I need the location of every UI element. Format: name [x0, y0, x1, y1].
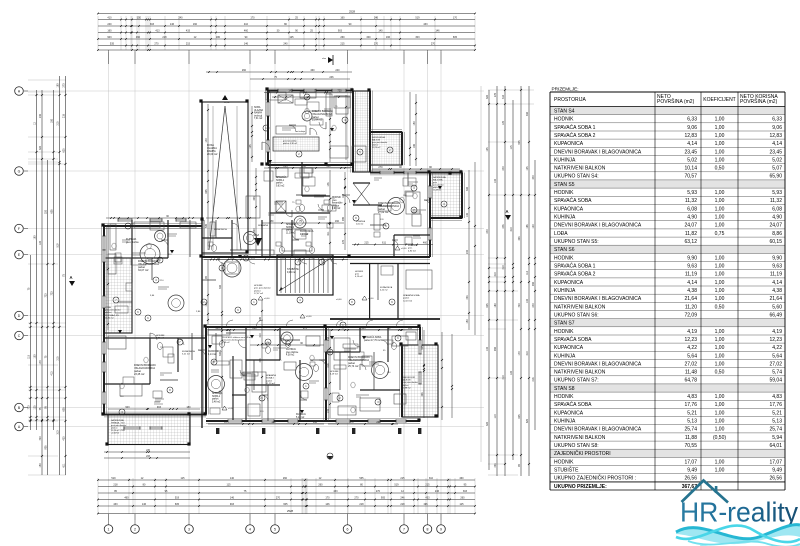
svg-text:SPAVAĆA SOBA: SPAVAĆA SOBA: [554, 336, 592, 343]
svg-text:115: 115: [227, 483, 232, 486]
svg-text:11,19: 11,19: [770, 272, 782, 278]
svg-text:23,45: 23,45: [684, 149, 697, 155]
svg-text:170: 170: [39, 360, 42, 365]
svg-text:180: 180: [51, 118, 54, 123]
svg-text:519: 519: [57, 243, 60, 248]
svg-text:pločice 4,38 m2: pločice 4,38 m2: [283, 143, 298, 145]
svg-text:6,33: 6,33: [687, 117, 697, 123]
svg-text:150: 150: [39, 463, 42, 468]
svg-text:240: 240: [466, 249, 469, 254]
svg-text:310: 310: [259, 333, 262, 338]
svg-text:72,09: 72,09: [684, 312, 697, 318]
svg-text:720: 720: [337, 89, 342, 92]
svg-text:270: 270: [494, 92, 497, 97]
svg-text:25,74: 25,74: [769, 427, 782, 433]
svg-text:11,19: 11,19: [685, 272, 697, 278]
svg-text:218: 218: [113, 483, 118, 486]
svg-text:460: 460: [136, 36, 141, 39]
svg-text:460: 460: [423, 241, 428, 244]
svg-text:270: 270: [354, 496, 359, 499]
svg-text:21,64: 21,64: [769, 296, 782, 302]
svg-text:905: 905: [45, 445, 48, 450]
svg-text:215: 215: [340, 42, 345, 45]
svg-text:parket 17,76 m2: parket 17,76 m2: [364, 339, 381, 342]
svg-text:0,50: 0,50: [715, 304, 725, 310]
svg-text:160: 160: [271, 421, 276, 424]
svg-text:gres porculanske: gres porculanske: [402, 381, 419, 384]
svg-text:215: 215: [186, 42, 191, 45]
svg-text:146: 146: [244, 42, 249, 45]
svg-text:433: 433: [425, 496, 430, 499]
svg-text:STAN S5: STAN S5: [554, 182, 575, 188]
svg-text:903: 903: [532, 281, 535, 286]
svg-text:215: 215: [57, 356, 60, 361]
svg-text:611: 611: [382, 241, 387, 244]
svg-text:izolov.gl: izolov.gl: [254, 115, 263, 117]
svg-text:120: 120: [532, 224, 535, 229]
svg-text:5,07: 5,07: [772, 166, 782, 172]
S5 rooms south of mid-right unit: [350, 263, 430, 265]
svg-text:1,00: 1,00: [715, 157, 725, 163]
svg-text:605: 605: [453, 36, 458, 39]
svg-text:21,64: 21,64: [684, 296, 697, 302]
svg-text:1,00: 1,00: [715, 288, 725, 294]
svg-text:1,00: 1,00: [715, 255, 725, 261]
hatched terraces/balconies: [353, 91, 370, 172]
svg-text:26,56: 26,56: [769, 476, 782, 482]
svg-text:433: 433: [466, 295, 469, 300]
svg-text:SPAVAĆA SOBA: SPAVAĆA SOBA: [403, 294, 420, 297]
svg-text:4,14 m2: 4,14 m2: [300, 234, 309, 236]
svg-text:303: 303: [466, 186, 469, 191]
svg-text:4,38: 4,38: [687, 288, 697, 294]
svg-text:1,00: 1,00: [715, 272, 725, 278]
svg-text:12,23 m2: 12,23 m2: [403, 300, 413, 302]
svg-text:SPAVAĆA SOBA 1: SPAVAĆA SOBA 1: [554, 263, 596, 270]
svg-text:460: 460: [459, 477, 464, 480]
svg-text:6,33: 6,33: [772, 117, 782, 123]
grid bubbles 1-9: [108, 514, 110, 525]
svg-text:KUHINJA: KUHINJA: [554, 215, 576, 221]
svg-text:535: 535: [408, 327, 413, 330]
svg-text:4,14: 4,14: [687, 280, 697, 286]
svg-text:F: F: [18, 227, 20, 231]
svg-text:5,13: 5,13: [772, 419, 782, 425]
svg-text:DNEVNI BORAVAK I BLAGOVAONICA: DNEVNI BORAVAK I BLAGOVAONICA: [554, 223, 642, 229]
svg-text:SPAVAĆA SOBA 1: SPAVAĆA SOBA 1: [554, 124, 596, 131]
svg-text:KUHINJA: KUHINJA: [296, 413, 306, 416]
svg-text:HODNIK: HODNIK: [554, 329, 574, 335]
svg-text:218: 218: [400, 503, 405, 506]
svg-text:611: 611: [63, 463, 66, 467]
svg-text:20,00 m2: 20,00 m2: [207, 153, 218, 156]
svg-text:303: 303: [421, 392, 424, 397]
svg-text:125: 125: [486, 147, 489, 152]
svg-text:340: 340: [532, 175, 535, 180]
svg-text:65,90: 65,90: [769, 174, 782, 180]
svg-text:DNEVNI BORAVAK I BLAGOVAONICA: DNEVNI BORAVAK I BLAGOVAONICA: [554, 361, 642, 367]
svg-text:26,56: 26,56: [684, 476, 697, 482]
svg-text:21,64 m2: 21,64 m2: [312, 119, 323, 122]
svg-text:KUHINJA: KUHINJA: [554, 353, 576, 359]
svg-text:aa kuhinja: aa kuhinja: [296, 131, 306, 133]
svg-text:125: 125: [526, 166, 529, 171]
svg-text:±0,00: ±0,00: [368, 298, 374, 300]
svg-text:4,83: 4,83: [687, 394, 697, 400]
svg-text:303: 303: [463, 490, 468, 493]
svg-text:310: 310: [251, 256, 256, 259]
svg-text:gres porculanske pločice: gres porculanske pločice: [222, 339, 246, 342]
svg-text:HODNIK: HODNIK: [254, 285, 263, 287]
svg-text:SOBA: SOBA: [254, 106, 261, 109]
svg-text:180: 180: [57, 83, 60, 88]
svg-text:6,08: 6,08: [687, 206, 697, 212]
svg-text:246: 246: [400, 496, 405, 499]
svg-text:905: 905: [518, 140, 521, 145]
svg-text:180: 180: [216, 36, 221, 39]
furniture rects: [246, 196, 260, 218]
svg-text:903: 903: [107, 36, 112, 39]
svg-text:SPAVAĆA: SPAVAĆA: [212, 392, 223, 395]
svg-text:7: 7: [403, 528, 405, 532]
svg-text:34,07 m2: 34,07 m2: [138, 269, 149, 272]
svg-text:6,08: 6,08: [772, 206, 782, 212]
svg-text:4,14 m2: 4,14 m2: [208, 354, 217, 356]
svg-text:413: 413: [51, 371, 54, 376]
svg-text:115: 115: [510, 145, 513, 149]
svg-text:218: 218: [327, 336, 330, 341]
svg-text:KUHINJA: KUHINJA: [286, 348, 296, 351]
svg-text:146: 146: [466, 212, 469, 217]
svg-text:240: 240: [107, 23, 112, 26]
door arcs: [262, 142, 270, 150]
svg-text:gres porculanske: gres porculanske: [105, 309, 122, 312]
svg-text:246: 246: [374, 16, 379, 19]
svg-text:11,19 m2: 11,19 m2: [286, 232, 296, 234]
svg-text:260: 260: [318, 483, 323, 486]
svg-text:170: 170: [518, 351, 521, 356]
svg-text:4,90: 4,90: [772, 215, 782, 221]
svg-text:1,00: 1,00: [715, 361, 725, 367]
svg-text:303: 303: [415, 36, 420, 39]
svg-text:4,14: 4,14: [772, 141, 782, 147]
svg-text:140: 140: [230, 477, 235, 480]
svg-text:4,14: 4,14: [687, 141, 697, 147]
svg-text:1,00: 1,00: [715, 141, 725, 147]
svg-text:320: 320: [45, 209, 48, 214]
svg-text:160: 160: [107, 29, 112, 32]
svg-text:1,00: 1,00: [715, 345, 725, 351]
svg-text:903: 903: [494, 346, 497, 351]
svg-text:A: A: [505, 209, 508, 214]
svg-text:23,45: 23,45: [769, 149, 782, 155]
svg-text:11,82: 11,82: [685, 231, 697, 237]
svg-text:1,00: 1,00: [715, 215, 725, 221]
svg-text:LOĐA: LOĐA: [554, 231, 568, 237]
svg-text:SPAVAĆA SOBA: SPAVAĆA SOBA: [554, 401, 592, 408]
svg-text:903: 903: [338, 29, 343, 32]
svg-text:KOEFICIJENT: KOEFICIJENT: [703, 97, 736, 103]
svg-text:KUPAONICA: KUPAONICA: [554, 206, 584, 212]
svg-text:4,19: 4,19: [772, 329, 782, 335]
svg-text:1,00: 1,00: [715, 190, 725, 196]
svg-text:SPAVAĆA SOBA: SPAVAĆA SOBA: [364, 336, 382, 339]
svg-text:260: 260: [252, 327, 257, 330]
svg-text:115: 115: [28, 354, 31, 358]
svg-text:240: 240: [502, 166, 505, 171]
svg-text:140: 140: [378, 29, 383, 32]
svg-text:196: 196: [386, 36, 391, 39]
svg-text:270: 270: [376, 490, 381, 493]
svg-text:4: 4: [249, 528, 251, 532]
svg-text:625: 625: [63, 148, 66, 153]
svg-text:260: 260: [376, 421, 381, 424]
svg-text:11,32: 11,32: [770, 198, 782, 204]
svg-text:9,90 m2: 9,90 m2: [332, 208, 341, 210]
svg-text:246: 246: [435, 490, 440, 493]
svg-text:SOBA 2: SOBA 2: [286, 226, 295, 229]
svg-text:parket: parket: [266, 379, 272, 382]
svg-text:17,76: 17,76: [684, 402, 697, 408]
svg-text:1,00: 1,00: [715, 394, 725, 400]
svg-text:1,00: 1,00: [715, 149, 725, 155]
svg-text:160: 160: [335, 220, 340, 223]
svg-text:9,49 m2: 9,49 m2: [287, 271, 296, 274]
svg-text:4,83 m2: 4,83 m2: [156, 338, 165, 340]
svg-text:2528: 2528: [287, 509, 293, 513]
svg-text:gres pločice: gres pločice: [286, 351, 299, 354]
svg-text:±0,00: ±0,00: [264, 298, 270, 300]
upper-left unit interior: [273, 137, 319, 151]
svg-text:215: 215: [425, 483, 430, 486]
svg-text:320: 320: [39, 145, 42, 150]
svg-text:146: 146: [435, 29, 440, 32]
svg-text:UKUPNO PRIZEMLJE:: UKUPNO PRIZEMLJE:: [554, 484, 607, 490]
svg-text:KUPAONICA: KUPAONICA: [554, 345, 584, 351]
svg-text:24,07: 24,07: [769, 223, 782, 229]
svg-text:9,06: 9,06: [772, 125, 782, 131]
svg-text:+0,01%2: +0,01%2: [111, 433, 120, 435]
svg-text:8,86: 8,86: [772, 231, 782, 237]
svg-text:24,07: 24,07: [684, 223, 697, 229]
svg-text:460: 460: [124, 496, 129, 499]
svg-text:5,93: 5,93: [687, 190, 697, 196]
svg-text:605: 605: [259, 316, 262, 321]
entrance symbol: [328, 57, 333, 63]
svg-text:125: 125: [502, 120, 505, 125]
left dimension block: [28, 79, 66, 81]
svg-text:11,48 m2: 11,48 m2: [433, 190, 442, 192]
svg-text:1,00: 1,00: [715, 329, 725, 335]
svg-text:SOBA 2: SOBA 2: [266, 377, 275, 380]
svg-text:140: 140: [288, 89, 293, 92]
svg-text:23,45 m2: 23,45 m2: [134, 373, 145, 376]
svg-text:110: 110: [342, 193, 345, 197]
svg-text:5,13 m2: 5,13 m2: [296, 417, 305, 419]
svg-text:310: 310: [526, 351, 529, 356]
svg-text:140: 140: [486, 346, 489, 351]
svg-text:240: 240: [532, 303, 535, 308]
svg-text:720: 720: [45, 293, 48, 298]
svg-text:625: 625: [526, 418, 529, 423]
svg-text:UKUPNO STAN S6:: UKUPNO STAN S6:: [554, 312, 599, 318]
svg-text:303: 303: [518, 236, 521, 241]
svg-text:12,23: 12,23: [769, 337, 782, 343]
svg-text:605: 605: [63, 407, 66, 412]
svg-text:218: 218: [359, 503, 364, 506]
svg-text:12,83: 12,83: [684, 133, 697, 139]
svg-text:5,02: 5,02: [687, 157, 697, 163]
svg-text:59,04: 59,04: [769, 378, 782, 384]
svg-text:parket: parket: [403, 297, 409, 300]
svg-text:66,49: 66,49: [769, 312, 782, 318]
svg-text:180: 180: [494, 303, 497, 308]
svg-text:11,20: 11,20: [685, 304, 697, 310]
svg-text:1,00: 1,00: [715, 468, 725, 474]
svg-text:605: 605: [175, 503, 180, 506]
svg-text:433: 433: [494, 463, 497, 468]
svg-text:140: 140: [494, 178, 497, 183]
svg-text:±0,00: ±0,00: [336, 299, 342, 301]
svg-text:140: 140: [327, 408, 330, 413]
svg-text:146: 146: [325, 503, 330, 506]
svg-text:303: 303: [259, 358, 262, 363]
svg-text:605: 605: [51, 209, 54, 214]
svg-text:625: 625: [486, 303, 489, 308]
svg-text:413: 413: [155, 29, 160, 32]
svg-text:246: 246: [329, 76, 334, 79]
svg-text:pločice: pločice: [254, 290, 262, 292]
svg-text:SPAVAĆA: SPAVAĆA: [286, 223, 297, 226]
HR-reality logo: [676, 481, 800, 546]
svg-text:115: 115: [181, 477, 186, 480]
svg-text:5: 5: [274, 528, 276, 532]
grid bubbles A-H: [24, 90, 28, 92]
svg-text:4,38 m2: 4,38 m2: [286, 355, 295, 357]
svg-text:246: 246: [502, 224, 505, 229]
svg-text:310: 310: [326, 165, 331, 168]
svg-text:60,15: 60,15: [769, 239, 782, 245]
elevation marks: [258, 296, 263, 300]
column stubs below building: [216, 428, 219, 434]
svg-text:903: 903: [310, 256, 315, 259]
svg-text:260: 260: [283, 477, 288, 480]
svg-text:146: 146: [230, 496, 235, 499]
bathroom fixtures: [299, 205, 304, 212]
svg-text:170: 170: [325, 496, 330, 499]
svg-text:215: 215: [400, 477, 405, 480]
svg-text:4,19 m2: 4,19 m2: [330, 374, 339, 376]
svg-text:4,90: 4,90: [687, 215, 697, 221]
svg-text:KUPAONICA: KUPAONICA: [300, 230, 314, 233]
svg-text:parket: parket: [276, 182, 283, 185]
svg-text:1,00: 1,00: [715, 223, 725, 229]
svg-text:215: 215: [57, 121, 60, 126]
top dimension block: [98, 13, 475, 15]
svg-text:270: 270: [378, 166, 383, 169]
svg-text:17,07 m2: 17,07 m2: [254, 293, 264, 295]
svg-text:HODNIK: HODNIK: [156, 335, 165, 337]
svg-text:4,90 m2: 4,90 m2: [408, 250, 417, 252]
svg-text:433: 433: [423, 23, 428, 26]
svg-text:11,19 m2: 11,19 m2: [266, 383, 276, 385]
svg-text:5,64: 5,64: [772, 353, 782, 359]
svg-text:120: 120: [39, 240, 42, 245]
svg-text:KUPAONICA: KUPAONICA: [554, 141, 584, 147]
svg-text:9,49: 9,49: [772, 468, 782, 474]
svg-text:LOĐA: LOĐA: [105, 306, 111, 309]
podest table: [223, 259, 241, 277]
svg-text:410: 410: [244, 23, 249, 26]
svg-text:110: 110: [494, 414, 497, 418]
svg-text:9,49: 9,49: [687, 468, 697, 474]
svg-text:1,00: 1,00: [715, 410, 725, 416]
svg-text:140: 140: [526, 298, 529, 303]
svg-text:410: 410: [107, 16, 112, 19]
svg-text:5,64: 5,64: [687, 353, 697, 359]
svg-text:gres pločice: gres pločice: [126, 241, 139, 244]
svg-text:11,82 m2: 11,82 m2: [105, 317, 114, 319]
svg-text:4,83: 4,83: [772, 394, 782, 400]
svg-text:12,83: 12,83: [769, 133, 782, 139]
svg-text:HODNIK: HODNIK: [330, 371, 339, 373]
upper interior dimension chains: [206, 71, 352, 73]
svg-text:KUPAONICA: KUPAONICA: [182, 350, 195, 353]
svg-text:170: 170: [349, 421, 354, 424]
svg-text:1: 1: [108, 528, 110, 532]
svg-text:160: 160: [193, 23, 198, 26]
svg-text:535: 535: [359, 477, 364, 480]
staircase: [277, 255, 333, 295]
svg-text:7,31 m2: 7,31 m2: [254, 118, 263, 120]
svg-text:STAN S4: STAN S4: [554, 108, 575, 114]
svg-text:1,00: 1,00: [715, 280, 725, 286]
svg-text:5,21: 5,21: [687, 410, 697, 416]
svg-text:SPAVAĆA: SPAVAĆA: [266, 374, 276, 377]
svg-text:DNEVNI BORAVAK I BLAGOVAONICA: DNEVNI BORAVAK I BLAGOVAONICA: [554, 296, 642, 302]
svg-text:DNEVNI BORAVAK I BLAGOVAONICA: DNEVNI BORAVAK I BLAGOVAONICA: [554, 149, 642, 155]
svg-text:1,00: 1,00: [715, 459, 725, 465]
svg-text:NATKRIVENI BALKON: NATKRIVENI BALKON: [554, 304, 606, 310]
svg-text:SPAVAĆA SOBA: SPAVAĆA SOBA: [554, 197, 592, 204]
svg-text:pločice: pločice: [332, 205, 340, 207]
svg-text:260: 260: [242, 69, 247, 72]
svg-text:196: 196: [413, 143, 416, 148]
svg-text:5,02: 5,02: [772, 157, 782, 163]
svg-text:110: 110: [526, 270, 529, 274]
svg-text:5,60: 5,60: [772, 304, 782, 310]
svg-text:1,00: 1,00: [715, 198, 725, 204]
svg-text:0,75: 0,75: [715, 231, 725, 237]
interior dimension chains: [106, 217, 200, 219]
svg-text:gres: gres: [355, 273, 359, 276]
entrance ramp: [202, 102, 248, 253]
svg-text:parket: parket: [286, 229, 293, 232]
logo chimney: [715, 486, 718, 493]
svg-text:SPAVAĆA SOBA 2: SPAVAĆA SOBA 2: [554, 132, 596, 139]
svg-text:1,00: 1,00: [715, 264, 725, 270]
svg-text:POVRŠINA (m2): POVRŠINA (m2): [657, 98, 695, 105]
svg-text:1,00: 1,00: [715, 353, 725, 359]
svg-text:KUHINJA: KUHINJA: [554, 288, 576, 294]
svg-text:A: A: [69, 275, 72, 280]
logo house roof: [682, 481, 729, 503]
svg-text:HODNIK: HODNIK: [554, 190, 574, 196]
svg-text:160: 160: [340, 16, 345, 19]
svg-text:150: 150: [466, 319, 469, 324]
svg-text:KUPAONICA: KUPAONICA: [380, 286, 393, 289]
svg-text:HODNIK: HODNIK: [554, 459, 574, 465]
